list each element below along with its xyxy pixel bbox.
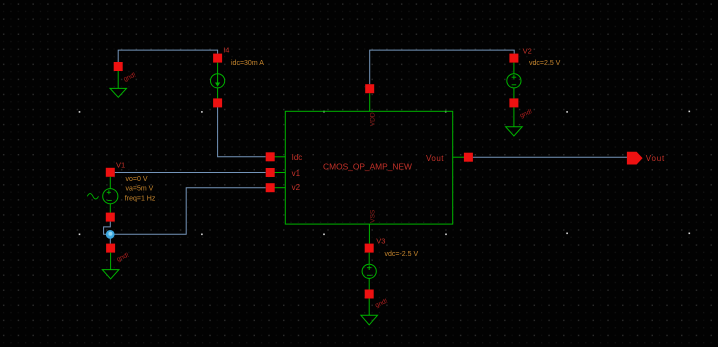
major grid bright dots bbox=[79, 111, 690, 236]
svg-text:V2: V2 bbox=[523, 46, 532, 55]
vdc source V3 bbox=[362, 244, 376, 299]
svg-text:freq=1 Hz: freq=1 Hz bbox=[125, 196, 156, 203]
svg-text:vdc=-2.5 V: vdc=-2.5 V bbox=[385, 251, 419, 258]
ground gnd3 (below V2) bbox=[506, 107, 523, 136]
vsin source V1 bbox=[87, 168, 118, 222]
output pin Vout bbox=[627, 152, 643, 165]
wire V1 top to v1 pin bbox=[115, 172, 266, 174]
pin stub VDD bbox=[369, 93, 371, 111]
wire Vout pin to output pin bbox=[473, 156, 627, 158]
current source I4 bbox=[211, 54, 225, 108]
svg-text:v2: v2 bbox=[292, 183, 301, 192]
svg-text:VSS: VSS bbox=[369, 209, 376, 223]
pin stub Vout bbox=[453, 156, 469, 158]
pin stub Idc bbox=[270, 156, 285, 158]
pin stub v2 bbox=[270, 187, 285, 189]
pin square VDD bbox=[365, 84, 374, 93]
ground gnd4 (below V3) bbox=[361, 299, 378, 325]
svg-text:v1: v1 bbox=[292, 169, 301, 178]
pin square Vout bbox=[464, 153, 473, 162]
svg-text:idc=30m A: idc=30m A bbox=[231, 60, 264, 67]
pin square v2 bbox=[266, 183, 275, 192]
top rail wire (VDD net) bbox=[370, 50, 515, 84]
svg-text:V3: V3 bbox=[376, 236, 385, 245]
ground gnd2 bbox=[102, 244, 119, 279]
svg-text:vdc=2.5 V: vdc=2.5 V bbox=[529, 60, 561, 67]
pin stub VSS bbox=[368, 224, 370, 244]
solder junction node bbox=[106, 230, 115, 239]
svg-text:va=5m V: va=5m V bbox=[126, 186, 154, 193]
wire junction down to gnd2 bbox=[109, 234, 111, 243]
svg-text:Idc: Idc bbox=[292, 153, 303, 162]
svg-text:vo=0 V: vo=0 V bbox=[126, 176, 148, 183]
svg-text:Vout: Vout bbox=[426, 154, 444, 163]
svg-text:V1: V1 bbox=[116, 161, 125, 170]
ground gnd1 bbox=[110, 62, 127, 97]
svg-text:CMOS_OP_AMP_NEW: CMOS_OP_AMP_NEW bbox=[323, 161, 412, 171]
wire V1 bottom jog to junction bbox=[104, 222, 111, 235]
svg-text:VDD: VDD bbox=[369, 112, 376, 126]
vdc source V2 bbox=[507, 54, 521, 108]
pin square v1 bbox=[266, 168, 275, 177]
svg-text:I4: I4 bbox=[223, 45, 229, 54]
svg-text:Vout: Vout bbox=[646, 154, 665, 163]
pin stub v1 bbox=[270, 172, 285, 174]
op-amp block U1 CMOS_OP_AMP_NEW bbox=[285, 111, 452, 224]
wire gnd1 to I4 top bbox=[118, 50, 217, 62]
pin square Idc bbox=[266, 152, 275, 161]
wire junction to v2 pin bbox=[110, 188, 265, 235]
wire I4 bottom to Idc pin bbox=[218, 107, 266, 156]
